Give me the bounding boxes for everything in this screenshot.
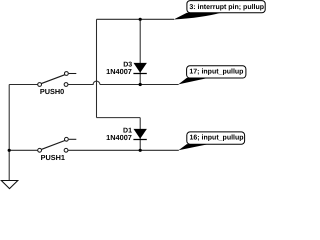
wire: D1 branch vertical <box>139 118 141 151</box>
svg-text:16; input_pullup: 16; input_pullup <box>190 134 244 142</box>
ground <box>1 181 18 189</box>
svg-text:PUSH1: PUSH1 <box>41 153 65 162</box>
wire: jog to D1 anode column <box>97 117 141 119</box>
junction dot: D3 cathode / PUSH0 output wire <box>139 83 142 86</box>
pushbutton PUSH0 <box>38 72 77 97</box>
wire: D3 branch vertical <box>139 19 141 84</box>
junction dot: bus / PUSH1 wire <box>8 149 11 152</box>
wire: ground bus <box>8 85 10 181</box>
svg-text:17; input_pullup: 17; input_pullup <box>189 68 243 76</box>
wire: PUSH0 output with hop over vertical, to flag 17 <box>68 81 178 84</box>
svg-text:3: interrupt pin; pullup: 3: interrupt pin; pullup <box>189 3 264 11</box>
diode D1 <box>106 128 147 142</box>
diode D3 <box>106 62 147 76</box>
pushbutton PUSH1 <box>38 137 77 162</box>
junction dot: D1 cathode / PUSH1 output wire <box>139 149 142 152</box>
label box: 17 input_pullup <box>187 66 246 78</box>
wire: bus to PUSH1 left terminal <box>9 149 37 151</box>
junction dot: top wire / D3 anode <box>139 18 142 21</box>
wire: top net horizontal to flag 3 <box>97 18 175 20</box>
svg-text:PUSH0: PUSH0 <box>40 87 64 96</box>
flag wedge: pin 16 <box>179 144 209 150</box>
label box: 3 interrupt pin <box>187 1 265 13</box>
wire: PUSH1 output to flag 16 <box>68 149 179 151</box>
wire: bus to PUSH0 left terminal <box>9 84 37 86</box>
wire: vertical drop from top net <box>96 19 98 117</box>
flag wedge: pin 17 <box>178 78 208 85</box>
svg-text:1N4007: 1N4007 <box>106 133 132 142</box>
flag wedge: pin 3 <box>174 13 221 20</box>
svg-text:1N4007: 1N4007 <box>106 67 132 76</box>
label box: 16 input_pullup <box>187 132 245 144</box>
